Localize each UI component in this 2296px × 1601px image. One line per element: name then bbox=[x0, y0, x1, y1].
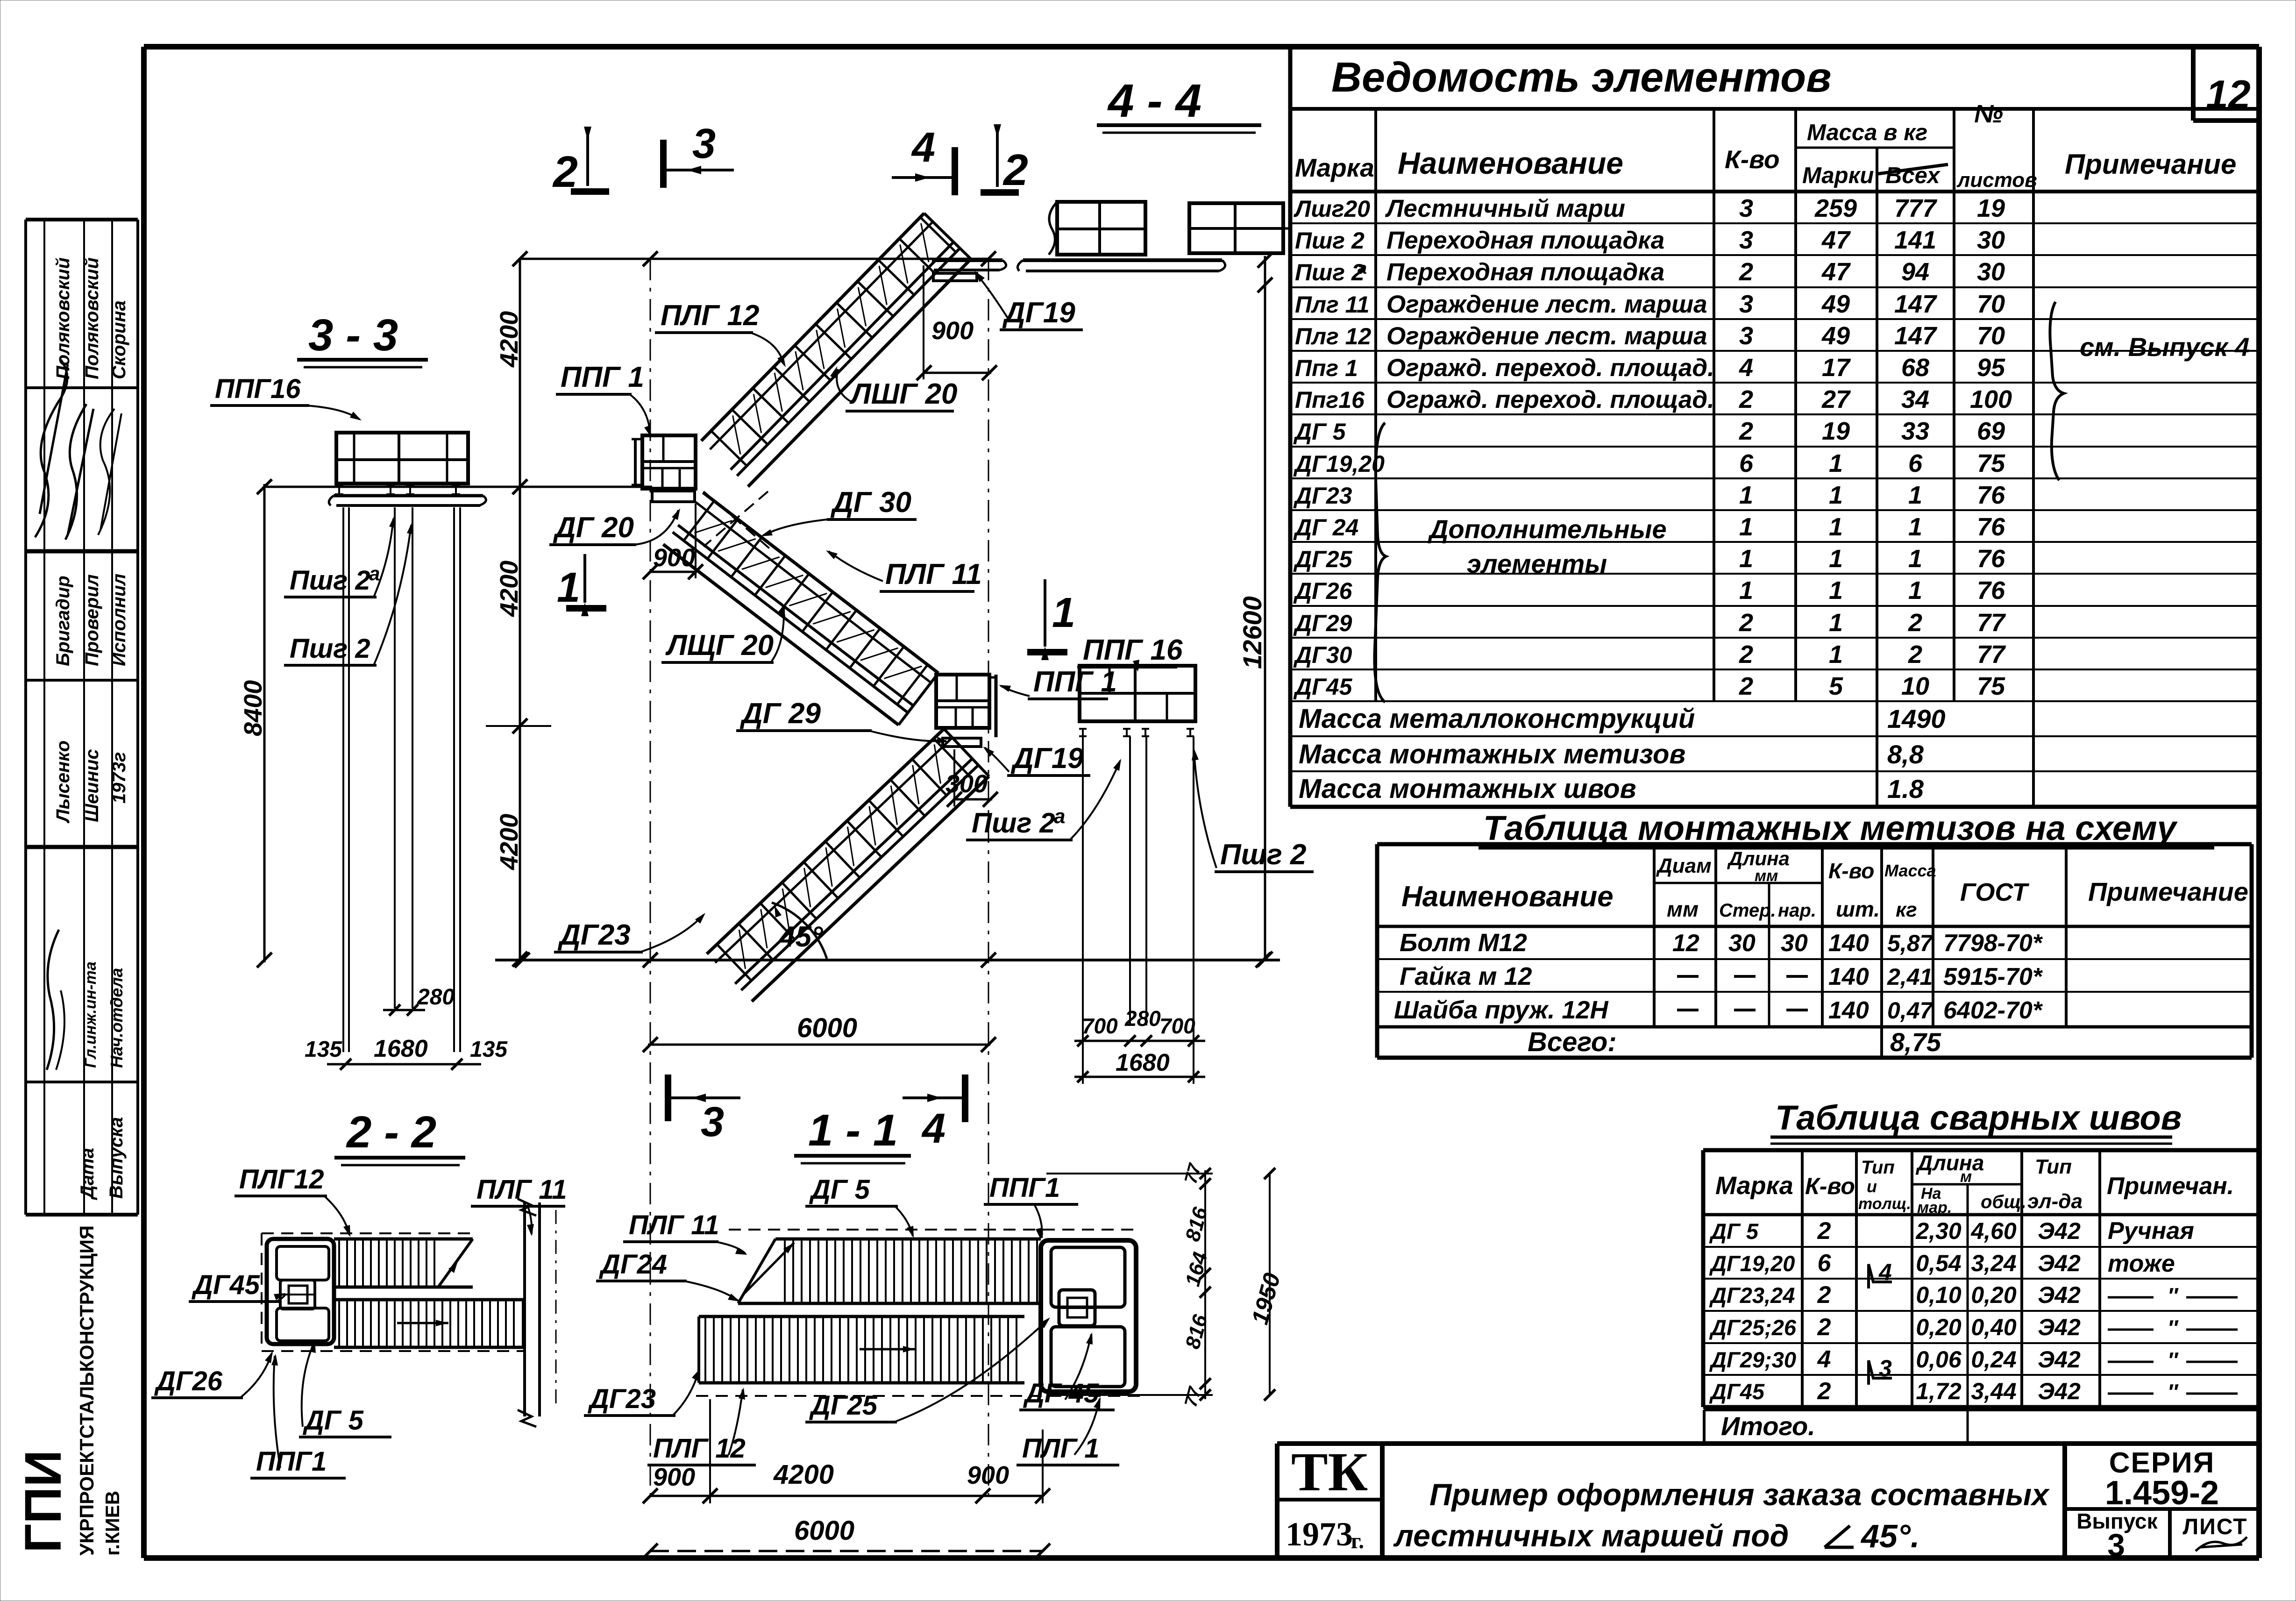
svg-text:300: 300 bbox=[945, 770, 988, 798]
svg-text:3: 3 bbox=[692, 121, 716, 167]
svg-text:77: 77 bbox=[1977, 609, 2006, 637]
svg-text:ДГ29: ДГ29 bbox=[1293, 610, 1352, 636]
svg-text:Огражд. переход. площад.: Огражд. переход. площад. bbox=[1386, 386, 1714, 413]
svg-text:1,72: 1,72 bbox=[1916, 1378, 1962, 1404]
svg-text:6000: 6000 bbox=[797, 1013, 857, 1043]
svg-text:75: 75 bbox=[1977, 672, 2005, 700]
svg-text:″: ″ bbox=[2168, 1348, 2179, 1372]
svg-text:Нач.отдела: Нач.отдела bbox=[107, 968, 126, 1068]
sheet frame border bbox=[144, 44, 2259, 50]
axis line left bbox=[650, 259, 651, 1497]
svg-text:2: 2 bbox=[1739, 417, 1753, 445]
svg-text:140: 140 bbox=[1828, 930, 1869, 957]
view 2-2 wall stringer right bbox=[523, 1203, 526, 1416]
svg-text:ДГ23: ДГ23 bbox=[1293, 483, 1352, 509]
weld table outer bbox=[1703, 1148, 2259, 1153]
svg-text:8,75: 8,75 bbox=[1890, 1027, 1941, 1057]
svg-text:69: 69 bbox=[1977, 417, 2005, 445]
svg-text:4200: 4200 bbox=[495, 311, 523, 368]
svg-text:Примечание: Примечание bbox=[2065, 149, 2236, 180]
svg-text:0,24: 0,24 bbox=[1971, 1346, 2016, 1373]
svg-text:2: 2 bbox=[1739, 258, 1753, 286]
svg-text:135: 135 bbox=[470, 1037, 508, 1062]
svg-text:4: 4 bbox=[1878, 1259, 1892, 1285]
svg-text:3: 3 bbox=[1739, 322, 1753, 350]
junction cross below mid landing bbox=[704, 491, 772, 550]
element table column lines bbox=[1374, 109, 1377, 701]
view 3-3 landing plan bbox=[336, 433, 468, 484]
svg-text:3: 3 bbox=[1879, 1355, 1892, 1381]
svg-text:0,20: 0,20 bbox=[1916, 1314, 1962, 1340]
svg-text:Лысенко: Лысенко bbox=[53, 740, 73, 824]
view 3-3 hanger rods bbox=[342, 507, 344, 1052]
svg-text:Пшг 2: Пшг 2 bbox=[972, 807, 1055, 839]
svg-text:1: 1 bbox=[1829, 481, 1843, 509]
svg-text:3: 3 bbox=[1739, 194, 1753, 222]
svg-text:4: 4 bbox=[911, 124, 935, 171]
svg-text:лестничных маршей под: лестничных маршей под bbox=[1393, 1518, 1789, 1553]
svg-text:а: а bbox=[1054, 805, 1065, 828]
svg-text:7798-70*: 7798-70* bbox=[1943, 930, 2043, 957]
svg-text:Масса монтажных метизов: Масса монтажных метизов bbox=[1299, 739, 1685, 769]
svg-text:Длина: Длина bbox=[1727, 847, 1790, 869]
svg-text:см. Выпуск 4: см. Выпуск 4 bbox=[2080, 332, 2250, 362]
svg-text:Итого.: Итого. bbox=[1721, 1411, 1815, 1441]
svg-text:ДГ30: ДГ30 bbox=[1293, 642, 1352, 668]
svg-text:ПЛГ 12: ПЛГ 12 bbox=[661, 299, 759, 332]
svg-text:ЛЩГ 20: ЛЩГ 20 bbox=[665, 629, 774, 662]
svg-text:280: 280 bbox=[417, 985, 455, 1010]
svg-text:30: 30 bbox=[1977, 226, 2005, 254]
svg-text:1: 1 bbox=[1908, 481, 1922, 509]
svg-text:5,87: 5,87 bbox=[1887, 930, 1934, 956]
svg-text:1680: 1680 bbox=[1116, 1049, 1170, 1076]
svg-text:76: 76 bbox=[1977, 481, 2005, 509]
svg-text:900: 900 bbox=[967, 1461, 1009, 1489]
svg-text:76: 76 bbox=[1977, 513, 2005, 541]
weld symbol K3 bbox=[1869, 1360, 1892, 1385]
view 1-1 bolt assembly DG45 bbox=[1059, 1290, 1095, 1326]
svg-text:К-во: К-во bbox=[1828, 859, 1874, 883]
svg-text:Таблица монтажных метизов: Таблица монтажных метизов на схему bbox=[1483, 809, 2178, 847]
svg-text:27: 27 bbox=[1821, 385, 1851, 413]
svg-text:4: 4 bbox=[1739, 354, 1753, 382]
svg-text:ДГ 5: ДГ 5 bbox=[809, 1174, 870, 1205]
svg-text:47: 47 bbox=[1821, 258, 1851, 286]
svg-text:1 - 1: 1 - 1 bbox=[808, 1105, 898, 1155]
svg-text:ДГ 45: ДГ 45 bbox=[1023, 1378, 1099, 1409]
svg-text:94: 94 bbox=[1901, 258, 1929, 286]
svg-text:6: 6 bbox=[1908, 449, 1923, 477]
svg-text:ДГ25: ДГ25 bbox=[1293, 546, 1353, 572]
svg-text:Огражд. переход. площад.: Огражд. переход. площад. bbox=[1386, 354, 1714, 382]
svg-text:1950: 1950 bbox=[1247, 1270, 1286, 1327]
svg-text:ПЛГ 11: ПЛГ 11 bbox=[885, 558, 982, 591]
svg-text:2: 2 bbox=[1908, 640, 1922, 669]
svg-text:Дата: Дата bbox=[77, 1148, 98, 1200]
svg-text:141: 141 bbox=[1894, 226, 1936, 254]
svg-text:К-во: К-во bbox=[1805, 1173, 1855, 1199]
svg-text:Лестничный марш: Лестничный марш bbox=[1385, 195, 1625, 222]
svg-text:2: 2 bbox=[1739, 385, 1753, 413]
top landing channel bbox=[932, 258, 1002, 262]
view 2-2 dashed outline bbox=[262, 1232, 475, 1234]
svg-text:30: 30 bbox=[1781, 930, 1808, 957]
weld table itogo row bbox=[1704, 1409, 2259, 1411]
svg-text:1.459-2: 1.459-2 bbox=[2105, 1474, 2219, 1512]
svg-text:ДГ 5: ДГ 5 bbox=[1709, 1219, 1759, 1244]
svg-text:Поляковский: Поляковский bbox=[82, 257, 102, 379]
svg-text:Масса: Масса bbox=[1884, 861, 1936, 880]
svg-text:2: 2 bbox=[1739, 640, 1753, 669]
svg-text:1: 1 bbox=[1739, 513, 1753, 541]
svg-text:76: 76 bbox=[1977, 545, 2005, 573]
svg-text:1: 1 bbox=[1739, 545, 1753, 573]
svg-text:2: 2 bbox=[1817, 1314, 1831, 1341]
section marker 3 top bbox=[660, 140, 667, 188]
svg-text:ДГ45: ДГ45 bbox=[1709, 1379, 1765, 1404]
svg-text:1: 1 bbox=[1052, 590, 1075, 636]
title block top line bbox=[1277, 1441, 2259, 1446]
element table outer lines bbox=[1288, 48, 1293, 807]
svg-text:1: 1 bbox=[1829, 609, 1843, 637]
svg-text:К-во: К-во bbox=[1725, 145, 1780, 174]
left strip band2 signature scribbles bbox=[35, 360, 68, 537]
svg-text:4200: 4200 bbox=[773, 1459, 834, 1490]
svg-text:2: 2 bbox=[1817, 1378, 1831, 1405]
svg-text:2,41: 2,41 bbox=[1887, 964, 1933, 990]
svg-text:″: ″ bbox=[2168, 1283, 2179, 1308]
svg-text:68: 68 bbox=[1901, 354, 1929, 382]
svg-text:0,20: 0,20 bbox=[1971, 1282, 2017, 1308]
svg-text:ДГ23: ДГ23 bbox=[557, 919, 631, 951]
svg-text:Примечание: Примечание bbox=[2088, 877, 2248, 906]
svg-text:Наименование: Наименование bbox=[1401, 881, 1614, 913]
svg-text:Э42: Э42 bbox=[2038, 1346, 2081, 1373]
svg-text:Исполнил: Исполнил bbox=[109, 574, 129, 666]
dimension line 4200x3 vertical bbox=[519, 259, 521, 960]
left strip band5 signatures and roles bbox=[47, 930, 59, 1070]
lower landing box bbox=[936, 675, 989, 728]
svg-text:Тип: Тип bbox=[1861, 1157, 1895, 1178]
svg-text:ППГ 1: ППГ 1 bbox=[561, 361, 644, 393]
view 4-4 landing plan right bbox=[1189, 203, 1283, 253]
svg-text:толщ.: толщ. bbox=[1858, 1195, 1911, 1213]
svg-text:76: 76 bbox=[1977, 576, 2005, 605]
svg-text:77: 77 bbox=[1977, 640, 2006, 669]
svg-text:Наименование: Наименование bbox=[1398, 146, 1623, 180]
svg-text:5915-70*: 5915-70* bbox=[1943, 963, 2043, 990]
svg-text:Пшг 2: Пшг 2 bbox=[1220, 839, 1307, 871]
svg-text:ДГ29;30: ДГ29;30 bbox=[1709, 1347, 1796, 1372]
svg-text:6000: 6000 bbox=[794, 1516, 854, 1546]
top floor level line bbox=[520, 258, 990, 260]
svg-text:Переходная площадка: Переходная площадка bbox=[1386, 227, 1664, 254]
svg-text:Пшг 2: Пшг 2 bbox=[290, 633, 370, 664]
svg-text:ДГ 29: ДГ 29 bbox=[739, 697, 821, 730]
view 1-1 dashed outline bbox=[729, 1229, 1140, 1231]
svg-text:900: 900 bbox=[653, 544, 695, 572]
svg-text:2: 2 bbox=[1908, 609, 1922, 637]
svg-text:164: 164 bbox=[1181, 1250, 1212, 1289]
svg-text:Дополнительные: Дополнительные bbox=[1428, 514, 1667, 544]
landing plan hanger verticals bbox=[1082, 736, 1084, 1025]
svg-text:75: 75 bbox=[1977, 449, 2005, 477]
svg-text:г.КИЕВ: г.КИЕВ bbox=[101, 1491, 123, 1556]
svg-text:1.8: 1.8 bbox=[1887, 774, 1924, 804]
svg-text:Марка: Марка bbox=[1715, 1172, 1793, 1200]
svg-text:ДГ 5: ДГ 5 bbox=[302, 1405, 364, 1436]
svg-text:259: 259 bbox=[1814, 194, 1857, 222]
svg-text:Э42: Э42 bbox=[2038, 1282, 2081, 1308]
svg-text:700: 700 bbox=[1159, 1014, 1195, 1038]
svg-text:Марки: Марки bbox=[1802, 163, 1874, 188]
weld table row lines bbox=[1703, 1246, 2259, 1248]
svg-text:1: 1 bbox=[1829, 545, 1843, 573]
svg-text:30: 30 bbox=[1728, 930, 1756, 957]
svg-text:Ведомость элементов: Ведомость элементов bbox=[1331, 54, 1832, 101]
svg-text:34: 34 bbox=[1901, 385, 1929, 413]
svg-text:49: 49 bbox=[1821, 322, 1850, 350]
svg-text:Ограждение лест. марша: Ограждение лест. марша bbox=[1386, 291, 1707, 318]
svg-text:Плг 12: Плг 12 bbox=[1295, 323, 1371, 349]
svg-text:8400: 8400 bbox=[239, 680, 267, 736]
svg-text:Тип: Тип bbox=[2035, 1155, 2072, 1178]
svg-text:ТК: ТК bbox=[1291, 1441, 1368, 1502]
view 1-1 landing inner bottom bbox=[1051, 1327, 1125, 1387]
mid landing lower tail bbox=[652, 491, 695, 502]
svg-text:0,10: 0,10 bbox=[1916, 1282, 1962, 1308]
svg-text:4: 4 bbox=[921, 1105, 945, 1152]
section marker 2 top-right bbox=[996, 130, 999, 187]
svg-text:ДГ24: ДГ24 bbox=[598, 1249, 667, 1280]
svg-text:ПЛГ 1: ПЛГ 1 bbox=[1022, 1433, 1100, 1464]
svg-text:Пшг 2: Пшг 2 bbox=[290, 565, 370, 596]
svg-text:Марка: Марка bbox=[1295, 153, 1374, 182]
svg-text:Ппг16: Ппг16 bbox=[1295, 387, 1365, 413]
svg-text:Пшг 2: Пшг 2 bbox=[1295, 228, 1365, 254]
view 2-2 landing inner bottom bbox=[277, 1308, 329, 1341]
svg-text:Лшг20: Лшг20 bbox=[1294, 196, 1370, 222]
view 4-4 hanger tick bbox=[1264, 256, 1266, 280]
svg-text:ДГ19,20: ДГ19,20 bbox=[1293, 451, 1385, 477]
view 3-3 support channel strip bbox=[334, 494, 483, 498]
view 1-1 right landing frame bbox=[1041, 1240, 1136, 1392]
svg-text:Гайка м 12: Гайка м 12 bbox=[1400, 962, 1532, 990]
svg-text:Стер.: Стер. bbox=[1719, 900, 1776, 921]
svg-text:ДГ45: ДГ45 bbox=[191, 1270, 260, 1300]
svg-text:ППГ16: ППГ16 bbox=[215, 374, 301, 404]
lower landing bottom strip bbox=[943, 738, 981, 747]
svg-text:ДГ45: ДГ45 bbox=[1293, 674, 1353, 700]
svg-text:Переходная площадка: Переходная площадка bbox=[1386, 258, 1664, 286]
svg-text:ППГ 16: ППГ 16 bbox=[1083, 634, 1183, 666]
svg-text:1: 1 bbox=[557, 564, 580, 611]
svg-text:Ппг 1: Ппг 1 bbox=[1295, 355, 1358, 381]
svg-text:и: и bbox=[1867, 1177, 1877, 1196]
svg-text:45°.: 45°. bbox=[1860, 1518, 1919, 1554]
svg-text:4200: 4200 bbox=[495, 561, 523, 617]
svg-text:30: 30 bbox=[1977, 258, 2005, 286]
svg-text:12600: 12600 bbox=[1237, 596, 1267, 669]
flight C band bbox=[701, 213, 971, 486]
svg-text:ГОСТ: ГОСТ bbox=[1960, 878, 2029, 906]
svg-text:а: а bbox=[369, 562, 380, 584]
svg-text:8,8: 8,8 bbox=[1887, 740, 1924, 769]
svg-text:95: 95 bbox=[1977, 354, 2005, 382]
svg-text:4,60: 4,60 bbox=[1970, 1218, 2017, 1244]
left strip band lines bbox=[26, 386, 138, 389]
hardware table row lines bbox=[1377, 958, 2252, 960]
svg-text:10: 10 bbox=[1901, 672, 1929, 700]
svg-text:2: 2 bbox=[1002, 145, 1028, 195]
svg-text:ППГ1: ППГ1 bbox=[256, 1446, 327, 1477]
svg-text:1: 1 bbox=[1829, 640, 1843, 669]
svg-text:ДГ26: ДГ26 bbox=[154, 1366, 223, 1396]
svg-text:3: 3 bbox=[2107, 1527, 2125, 1563]
section marker 4 top bbox=[892, 176, 954, 179]
view 2-2 landing inner top bbox=[277, 1246, 329, 1280]
svg-text:″: ″ bbox=[2168, 1380, 2179, 1404]
section marker 3 bottom bbox=[665, 1074, 671, 1121]
svg-text:Таблица сварных швов: Таблица сварных швов bbox=[1775, 1098, 2182, 1137]
flight B band bbox=[663, 492, 938, 725]
svg-text:6: 6 bbox=[1818, 1250, 1832, 1277]
svg-text:Пшг 2: Пшг 2 bbox=[1295, 259, 1365, 285]
top landing pad bbox=[933, 273, 977, 281]
svg-text:ПЛГ12: ПЛГ12 bbox=[239, 1164, 324, 1195]
svg-text:а: а bbox=[1358, 258, 1367, 278]
svg-text:Масса металлоконструкций: Масса металлоконструкций bbox=[1299, 704, 1695, 734]
svg-text:33: 33 bbox=[1901, 417, 1929, 445]
dimension line 12600 vertical bbox=[1264, 280, 1266, 960]
svg-text:1: 1 bbox=[1829, 576, 1843, 605]
svg-text:19: 19 bbox=[1822, 417, 1850, 445]
element table row lines bbox=[1290, 222, 2259, 224]
mid landing box bbox=[642, 435, 696, 489]
svg-text:100: 100 bbox=[1970, 385, 2012, 413]
svg-text:4: 4 bbox=[1817, 1346, 1831, 1373]
svg-text:Э42: Э42 bbox=[2038, 1378, 2081, 1404]
svg-text:листов: листов bbox=[1956, 169, 2037, 192]
svg-text:4200: 4200 bbox=[495, 814, 523, 870]
svg-text:м: м bbox=[1960, 1168, 1972, 1186]
svg-text:3: 3 bbox=[1739, 226, 1753, 254]
sheet stamp squiggle bbox=[2196, 1537, 2247, 1551]
svg-text:ДГ19: ДГ19 bbox=[1010, 742, 1084, 775]
svg-text:1: 1 bbox=[1739, 576, 1753, 605]
view 1-1 total dim 1950 bbox=[1269, 1174, 1271, 1395]
svg-text:ДГ23: ДГ23 bbox=[587, 1384, 656, 1414]
svg-text:Шеинис: Шеинис bbox=[82, 749, 102, 822]
svg-text:70: 70 bbox=[1977, 322, 2005, 350]
mid floor level line bbox=[264, 486, 652, 488]
svg-text:Проверил: Проверил bbox=[82, 574, 102, 666]
svg-text:ДГ26: ДГ26 bbox=[1293, 578, 1353, 604]
svg-text:″: ″ bbox=[2168, 1316, 2179, 1340]
brace see issue 4 bbox=[2050, 302, 2064, 480]
svg-text:ДГ 30: ДГ 30 bbox=[830, 486, 911, 519]
svg-text:135: 135 bbox=[305, 1037, 342, 1062]
view 4-4 base channel line bbox=[1023, 258, 1222, 262]
view 2-2 upper flight band bbox=[334, 1238, 473, 1241]
svg-text:мар.: мар. bbox=[1917, 1199, 1952, 1217]
svg-text:2: 2 bbox=[1739, 672, 1753, 700]
page number box 12 bbox=[2191, 47, 2196, 121]
svg-text:5: 5 bbox=[1829, 672, 1843, 700]
svg-text:ДГ 24: ДГ 24 bbox=[1293, 514, 1358, 541]
flight A band bbox=[707, 729, 989, 1001]
dimension 8400 view3-3 bbox=[263, 484, 266, 962]
weld symbol K4 bbox=[1869, 1264, 1892, 1288]
svg-text:ППГ1: ППГ1 bbox=[989, 1173, 1060, 1203]
svg-text:777: 777 bbox=[1894, 194, 1938, 222]
svg-text:Скорина: Скорина bbox=[109, 300, 129, 379]
view 1-1 right dim chain bbox=[1204, 1170, 1206, 1399]
svg-text:ДГ25;26: ДГ25;26 bbox=[1709, 1315, 1797, 1340]
svg-text:УКРПРОЕКТСТАЛЬКОНСТРУКЦИЯ: УКРПРОЕКТСТАЛЬКОНСТРУКЦИЯ bbox=[76, 1225, 98, 1556]
svg-text:3 - 3: 3 - 3 bbox=[308, 310, 398, 360]
svg-text:816: 816 bbox=[1181, 1204, 1212, 1244]
svg-text:ПЛГ 11: ПЛГ 11 bbox=[629, 1210, 719, 1240]
svg-text:Э42: Э42 bbox=[2038, 1218, 2081, 1244]
svg-text:1973г: 1973г bbox=[109, 752, 129, 804]
ground line bbox=[495, 959, 1280, 961]
svg-text:70: 70 bbox=[1977, 290, 2005, 318]
svg-text:1: 1 bbox=[1829, 513, 1843, 541]
svg-text:140: 140 bbox=[1828, 997, 1869, 1024]
svg-text:0,06: 0,06 bbox=[1916, 1346, 1962, 1373]
svg-text:816: 816 bbox=[1181, 1312, 1212, 1351]
svg-text:ДГ25: ДГ25 bbox=[809, 1390, 878, 1421]
svg-text:ДГ19: ДГ19 bbox=[1002, 297, 1075, 329]
svg-text:ДГ 20: ДГ 20 bbox=[553, 512, 634, 544]
svg-text:Диам: Диам bbox=[1656, 854, 1712, 877]
svg-text:6: 6 bbox=[1739, 449, 1754, 477]
svg-text:Длина: Длина bbox=[1915, 1151, 1984, 1175]
svg-text:Гл.инж.ин-та: Гл.инж.ин-та bbox=[82, 961, 100, 1068]
svg-text:общ.: общ. bbox=[1981, 1192, 2026, 1212]
svg-text:1973: 1973 bbox=[1286, 1516, 1353, 1553]
svg-text:19: 19 bbox=[1977, 194, 2005, 222]
view 3-3 channel symbols bbox=[335, 486, 343, 494]
svg-text:Масса в кг: Масса в кг bbox=[1807, 120, 1927, 145]
svg-text:2,30: 2,30 bbox=[1915, 1218, 1962, 1244]
view 1-1 landing inner top bbox=[1051, 1247, 1125, 1307]
svg-text:ЛШГ 20: ЛШГ 20 bbox=[849, 378, 958, 410]
left title strip outer box bbox=[26, 218, 138, 221]
svg-text:147: 147 bbox=[1894, 322, 1938, 350]
hardware table outer bbox=[1377, 842, 2252, 847]
svg-text:6402-70*: 6402-70* bbox=[1943, 997, 2043, 1024]
svg-text:ЛИСТ: ЛИСТ bbox=[2183, 1515, 2248, 1539]
title block TK box bbox=[1275, 1444, 1280, 1558]
svg-text:ДГ 5: ДГ 5 bbox=[1293, 419, 1346, 445]
svg-text:Э42: Э42 bbox=[2038, 1314, 2081, 1340]
svg-text:3: 3 bbox=[1739, 290, 1753, 318]
weld table header lines bbox=[1703, 1213, 2259, 1217]
svg-text:4 - 4: 4 - 4 bbox=[1107, 75, 1201, 127]
svg-text:17: 17 bbox=[1822, 354, 1851, 382]
section marker 4 bottom bbox=[903, 1096, 963, 1099]
svg-text:3,24: 3,24 bbox=[1971, 1250, 2016, 1276]
view 2-2 left landing frame bbox=[267, 1239, 334, 1344]
left strip column lines bbox=[43, 220, 45, 1215]
svg-text:ДГ19,20: ДГ19,20 bbox=[1709, 1251, 1795, 1276]
svg-text:Э42: Э42 bbox=[2038, 1250, 2081, 1276]
svg-text:кг: кг bbox=[1896, 898, 1917, 921]
landing plan channel marks bbox=[1079, 729, 1087, 736]
